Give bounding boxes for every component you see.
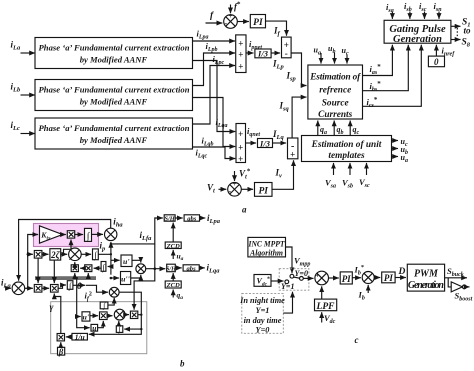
- svg-text:a: a: [242, 205, 247, 215]
- summing circle f: [224, 12, 238, 28]
- wire V_mpp: [286, 247, 311, 273]
- svg-text:+: +: [315, 272, 319, 280]
- PI block 1: [237, 15, 265, 29]
- i_sa stub: [386, 2, 394, 19]
- q_b wire: [334, 121, 343, 137]
- block S/H 2: [146, 264, 177, 272]
- amplifier K_ix: [40, 226, 63, 243]
- svg-text:Algorithm: Algorithm: [249, 248, 283, 257]
- u_a input: [173, 250, 183, 262]
- block PI 5: [374, 272, 395, 283]
- integrator E: [116, 321, 142, 334]
- multiplier x9: [57, 334, 72, 341]
- vertical x2 to x5: [37, 258, 39, 283]
- f* input: [231, 1, 242, 14]
- svg-text:templates: templates: [328, 151, 365, 161]
- xp bottom bend wire: [64, 240, 72, 255]
- svg-text:-: -: [285, 49, 288, 59]
- u_a output: [392, 153, 408, 164]
- multiplier circle b5: [107, 309, 125, 320]
- i_sc stub: [419, 1, 427, 19]
- block: Phase a AANF extraction box 2: [35, 80, 193, 111]
- svg-text:D: D: [398, 267, 406, 277]
- NOT gate: [448, 278, 466, 292]
- svg-text:Y=1: Y=1: [256, 306, 270, 315]
- wire I_Lp: [271, 53, 284, 71]
- svg-text:ZCD: ZCD: [166, 243, 180, 250]
- svg-text:Phase ‘a’ Fundamental current: Phase ‘a’ Fundamental current extraction: [39, 123, 190, 133]
- svg-text:by Modified AANF: by Modified AANF: [80, 55, 148, 65]
- block: Phase a AANF extraction box 3: [35, 118, 193, 149]
- u_c output: [392, 137, 408, 148]
- svg-text:I/3: I/3: [259, 138, 271, 148]
- multiplier xp: [62, 231, 75, 238]
- svg-text:+: +: [238, 62, 243, 72]
- block LPF: [315, 286, 337, 312]
- output S_boost: [455, 287, 473, 303]
- wire bus to u' and u: [77, 279, 90, 328]
- u' block in subbox: [82, 312, 90, 322]
- i_sb stub: [404, 1, 412, 19]
- svg-text:1/u: 1/u: [75, 332, 85, 341]
- svg-text:abs: abs: [187, 266, 197, 273]
- summer rect S3 (+ -): [282, 37, 292, 58]
- wire i_Lqc: [193, 147, 236, 160]
- multiplier x6: [42, 285, 58, 293]
- output i_Lqa: [199, 263, 220, 275]
- wire I_b*: [352, 264, 364, 278]
- V_sa stub: [325, 163, 336, 190]
- omega bus line (double): [35, 277, 96, 279]
- wire i_as*: [363, 45, 393, 76]
- wire I_v: [272, 160, 294, 189]
- u_b stub: [328, 44, 335, 64]
- wire i_Lpc: [193, 54, 236, 124]
- summing circle c2: [362, 272, 374, 284]
- svg-text:Y=0: Y=0: [295, 269, 308, 278]
- input i_Lc: [11, 120, 36, 134]
- svg-text:+: +: [238, 154, 243, 164]
- V_dc input to LPF: [322, 312, 336, 325]
- block 0 and i_nref: [428, 45, 455, 67]
- block u' upper: [121, 255, 132, 267]
- svg-text:u: u: [92, 323, 96, 332]
- multiplier x5: [34, 285, 42, 293]
- block PI 4: [329, 272, 353, 284]
- multiplier x2: [34, 251, 42, 259]
- u_b output: [392, 145, 408, 156]
- svg-text:ZCD: ZCD: [166, 282, 180, 289]
- b4 output loop to 1/u: [89, 292, 142, 334]
- svg-text:+: +: [233, 180, 237, 188]
- block beta: [58, 342, 65, 356]
- wire switch to summer: [303, 277, 313, 279]
- block 1/u: [72, 332, 87, 341]
- output S_buck: [445, 266, 467, 278]
- q_c wire: [350, 121, 359, 137]
- svg-text:u': u': [83, 312, 89, 321]
- wire error to x2: [28, 253, 33, 255]
- output i_Lpa: [200, 213, 221, 225]
- multiplier x8: [124, 311, 143, 318]
- svg-text:Source: Source: [322, 99, 349, 109]
- integrator B: [94, 262, 111, 274]
- wire Y control: [283, 292, 292, 313]
- wire to u': [111, 259, 120, 261]
- block: Gating Pulse Generation: [384, 20, 451, 45]
- wire i_qnet: [246, 126, 261, 143]
- wire i_cs*: [363, 45, 422, 109]
- svg-text:θ: θ: [77, 282, 82, 292]
- node: error riser: [28, 235, 38, 289]
- block u'' upper: [121, 272, 131, 285]
- svg-text:2ζ: 2ζ: [50, 250, 61, 260]
- wire i_pnet: [246, 39, 262, 53]
- feedback wire i_ha loop: [19, 220, 111, 281]
- V_sc stub: [359, 163, 370, 189]
- highlight box (pink): [34, 224, 99, 247]
- svg-text:PI: PI: [253, 18, 263, 28]
- integrator D: [100, 298, 114, 310]
- output S8 with to: [451, 26, 471, 49]
- multiplier circle b4: [109, 287, 119, 297]
- wire to u'': [111, 277, 119, 279]
- wire i_Lqa: [193, 61, 236, 132]
- V_t* input: [235, 168, 251, 182]
- output S1: [451, 18, 471, 29]
- block night/day condition: [239, 293, 285, 334]
- svg-text:LPF: LPF: [316, 302, 336, 312]
- wire i_Lqb: [193, 98, 236, 148]
- wire theta: [73, 282, 85, 292]
- svg-text:γ: γ: [50, 303, 54, 313]
- i_p node down: [110, 254, 112, 274]
- svg-text:I/3: I/3: [257, 49, 269, 59]
- svg-text:c: c: [355, 335, 359, 345]
- svg-text:Currents: Currents: [318, 110, 352, 120]
- block: Estimation of unit templates: [302, 136, 392, 162]
- u block: [91, 321, 103, 332]
- summer rect S1 (+++): [236, 35, 246, 73]
- summer rect S4 (- +): [288, 138, 298, 160]
- summing circle input: [12, 282, 25, 295]
- svg-text:+: +: [238, 129, 243, 139]
- svg-text:Phase ‘a’ Fundamental current: Phase ‘a’ Fundamental current extraction: [39, 85, 190, 95]
- svg-text:refrence: refrence: [319, 86, 351, 96]
- svg-text:Y=1: Y=1: [281, 282, 294, 291]
- wire I_sq: [279, 97, 307, 138]
- wire I_sp: [286, 53, 307, 86]
- svg-text:Y=0: Y=0: [256, 326, 270, 335]
- wire int to iha circle: [92, 233, 104, 235]
- gamma wire: [50, 294, 61, 334]
- svg-text:-: -: [229, 187, 232, 196]
- b3 q path down to x8: [134, 269, 155, 310]
- svg-text:+: +: [238, 39, 243, 49]
- svg-text:by Modified AANF: by Modified AANF: [80, 97, 148, 107]
- block abs 1: [175, 215, 199, 223]
- switch enclosure: [279, 269, 309, 291]
- q_a wire: [318, 121, 327, 137]
- f input: [206, 11, 223, 23]
- input i_Lb: [11, 82, 36, 96]
- PI block 3: [241, 183, 272, 197]
- block ZCD 2: [165, 273, 181, 289]
- svg-text:S/H: S/H: [165, 216, 176, 223]
- block V_dc*: [254, 275, 284, 288]
- wire error to x5 with riser to K: [25, 287, 33, 289]
- svg-text:β: β: [58, 346, 64, 356]
- svg-text:u': u': [123, 257, 130, 266]
- svg-text:S/H: S/H: [166, 266, 177, 273]
- switch contacts and arm: [281, 269, 308, 291]
- svg-text:+: +: [290, 150, 295, 160]
- svg-text:-: -: [225, 19, 228, 28]
- block ZCD 1: [165, 223, 181, 250]
- multiplier x4: [80, 265, 92, 277]
- input i_La: [1, 278, 11, 290]
- block: INC MPPT Algorithm: [248, 237, 286, 257]
- u_c stub: [342, 46, 349, 64]
- block 2zeta: [42, 249, 61, 260]
- svg-text:0: 0: [434, 57, 439, 67]
- block abs 2: [175, 265, 199, 273]
- summing circle b2: [61, 248, 81, 263]
- svg-text:Generation: Generation: [393, 34, 442, 45]
- multiplier x3: [71, 262, 78, 277]
- integrator C: [58, 281, 73, 292]
- wire I_f: [266, 21, 287, 37]
- wire D: [395, 267, 406, 278]
- block: PWM Generation: [407, 264, 444, 291]
- wire i_Lpa: [193, 29, 236, 42]
- I_b input: [358, 285, 369, 302]
- svg-text:+: +: [238, 143, 243, 153]
- block I/3 no.1: [255, 49, 271, 59]
- integrator A: [81, 249, 98, 261]
- wire i_p up into i_ha circle: [98, 241, 111, 255]
- svg-text:Phase ‘a’ Fundamental current: Phase ‘a’ Fundamental current extraction: [39, 43, 190, 53]
- V_t input: [207, 183, 226, 195]
- wire i_bs*: [363, 45, 409, 93]
- summing circle c1: [315, 271, 329, 288]
- svg-text:Estimation of unit: Estimation of unit: [311, 140, 382, 150]
- svg-text:abs: abs: [187, 216, 197, 223]
- integrator p: [75, 228, 92, 242]
- vertical 2z to x6: [53, 260, 55, 283]
- multiplier x7: [90, 312, 107, 320]
- block: Phase a AANF extraction box 1: [35, 38, 193, 69]
- input i_La: [11, 40, 36, 54]
- wire i_Lfa tap: [110, 218, 163, 269]
- summing circle V_t: [228, 180, 242, 196]
- svg-text:Estimation of: Estimation of: [309, 73, 361, 83]
- svg-text:by Modified AANF: by Modified AANF: [80, 135, 148, 145]
- svg-text:+: +: [238, 50, 243, 60]
- svg-text:in day time: in day time: [244, 316, 282, 325]
- block: Estimation of refrence Source Currents: [308, 65, 363, 120]
- multiplier circle b3: [131, 260, 146, 278]
- summing circle i_ha: [105, 228, 117, 240]
- svg-text:PI: PI: [258, 186, 268, 196]
- block S/H 1: [164, 215, 176, 223]
- svg-text:PWM: PWM: [414, 269, 439, 280]
- svg-text:b: b: [180, 359, 185, 369]
- svg-text:-: -: [318, 280, 321, 289]
- V_sb stub: [342, 163, 353, 190]
- wire i_Lpb: [193, 41, 236, 86]
- svg-text:INC MPPT: INC MPPT: [248, 240, 286, 249]
- q_a input: [173, 290, 183, 302]
- summer rect S2 (+++): [236, 124, 246, 165]
- svg-text:to: to: [464, 26, 472, 36]
- block I/3 no.2: [258, 138, 273, 148]
- i_sn stub: [434, 1, 443, 19]
- svg-text:u'': u'': [121, 274, 131, 283]
- svg-text:Generation: Generation: [408, 280, 444, 291]
- svg-text:In night time: In night time: [239, 296, 285, 305]
- svg-text:PI: PI: [384, 273, 393, 283]
- wire theta to b4: [86, 285, 108, 292]
- u_a stub: [314, 46, 322, 64]
- wire I_Lq: [272, 129, 286, 143]
- svg-text:PI: PI: [342, 274, 351, 284]
- inner dashed computation sub-box: [51, 302, 147, 354]
